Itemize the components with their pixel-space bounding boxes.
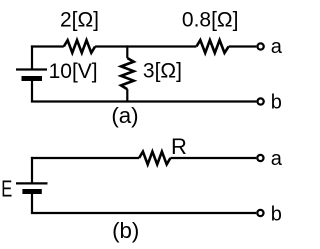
svg-text:10[V]: 10[V] [49, 60, 98, 83]
wire: middle branch upper (a) [126, 45, 128, 58]
wire: circuit (a) top-left segment [31, 45, 64, 47]
svg-text:a: a [271, 148, 283, 170]
battery E long plate [16, 182, 48, 184]
wire: circuit (b) bottom [31, 212, 256, 214]
terminal a (a) [258, 43, 264, 49]
wire: circuit (b) left vertical upper [31, 157, 33, 184]
svg-text:a: a [271, 36, 283, 58]
wire: circuit (b) top-left segment [31, 157, 139, 159]
svg-text:E: E [1, 177, 12, 202]
svg-text:b: b [271, 204, 282, 226]
resistor 3 ohm (a) [121, 58, 134, 89]
svg-text:(b): (b) [112, 218, 139, 243]
svg-text:0.8[Ω]: 0.8[Ω] [182, 9, 239, 32]
wire: circuit (a) top-middle segment [95, 45, 196, 47]
terminal a (b) [257, 155, 263, 161]
resistor 2 ohm (a) [64, 40, 95, 53]
svg-text:2[Ω]: 2[Ω] [60, 9, 99, 32]
resistor R (b) [139, 152, 170, 165]
svg-text:R: R [171, 134, 187, 159]
battery 10V short thick plate [22, 76, 43, 81]
svg-text:(a): (a) [111, 103, 138, 128]
battery 10V long plate [16, 68, 47, 70]
wire: circuit (a) top-right segment [229, 45, 257, 47]
terminal b (b) [257, 210, 263, 216]
wire: circuit (a) bottom [31, 100, 257, 102]
wire: circuit (a) left vertical upper [31, 45, 33, 69]
resistor 0.8 ohm (a) [196, 40, 228, 53]
terminal b (a) [258, 98, 264, 104]
wire: circuit (a) left vertical lower [31, 79, 33, 102]
svg-text:3[Ω]: 3[Ω] [143, 60, 182, 83]
svg-text:b: b [271, 92, 282, 114]
wire: middle branch lower (a) [126, 89, 128, 101]
wire: circuit (b) top-right segment [170, 157, 256, 159]
wire: circuit (b) left vertical lower [31, 192, 33, 214]
battery E short thick plate [22, 189, 41, 194]
